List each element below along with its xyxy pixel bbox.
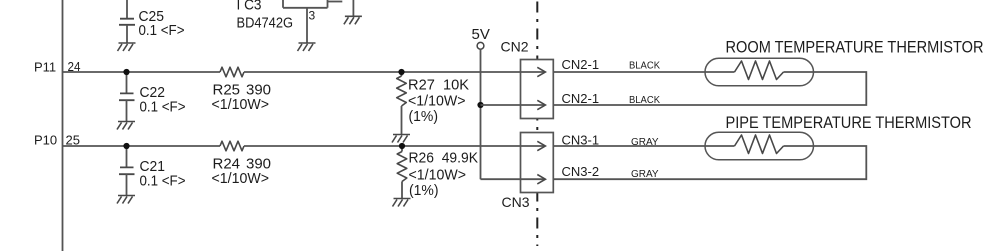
wire: CN2 pin1 arrow xyxy=(537,67,545,76)
svg-text:<1/10W>: <1/10W> xyxy=(212,170,270,187)
capacitor C21 xyxy=(126,146,128,167)
svg-text:CN3: CN3 xyxy=(502,194,530,210)
svg-text:(1%): (1%) xyxy=(409,108,439,125)
ground (R27) xyxy=(392,135,410,143)
svg-text:CN2: CN2 xyxy=(501,39,529,55)
svg-text:R27 10K: R27 10K xyxy=(408,77,469,94)
ground (top right) xyxy=(344,16,362,24)
svg-text:P11: P11 xyxy=(34,60,56,75)
svg-text:PIPE TEMPERATURE THERMISTOR: PIPE TEMPERATURE THERMISTOR xyxy=(726,114,972,132)
wire: pipe thermistor right loop xyxy=(553,146,866,179)
connector CN2 box xyxy=(521,60,554,119)
svg-text:R26 49.9K: R26 49.9K xyxy=(409,150,479,167)
wire: CN3 pin1 to pipe thermistor xyxy=(553,145,734,147)
resistor R26 xyxy=(401,146,403,152)
junction dot (R27) xyxy=(398,69,404,75)
resistor R27 xyxy=(401,72,403,76)
capacitor C22 xyxy=(126,72,128,93)
ground (C25) xyxy=(118,43,136,51)
svg-text:3: 3 xyxy=(309,9,316,23)
junction dot (C22) xyxy=(123,69,129,75)
pin 3 wire xyxy=(306,8,308,43)
ground (R26) xyxy=(393,199,411,207)
svg-text:5V: 5V xyxy=(472,26,490,43)
svg-text:(1%): (1%) xyxy=(409,182,439,199)
wire: P11 row left segment xyxy=(63,71,221,73)
wire: IC3 top right xyxy=(328,1,343,3)
svg-text:CN2-1: CN2-1 xyxy=(562,57,600,72)
svg-text:P10: P10 xyxy=(34,133,57,148)
wire: CN3 pin2 arrow xyxy=(537,175,545,184)
svg-text:<1/10W>: <1/10W> xyxy=(408,93,466,110)
svg-text:CN3-2: CN3-2 xyxy=(562,164,600,179)
junction dot (5V to CN2 pin2) xyxy=(477,102,483,108)
resistor R25 xyxy=(220,67,244,77)
boundary dash-dot line xyxy=(536,2,538,247)
wire: P10 row left segment xyxy=(63,145,221,147)
resistor R24 xyxy=(220,141,244,151)
thermistor RT1 zigzag xyxy=(735,61,784,80)
wire: 5V vertical xyxy=(480,49,482,179)
wire: 5V corner to CN3 pin2 xyxy=(481,178,546,180)
svg-text:<1/10W>: <1/10W> xyxy=(409,167,467,184)
capacitor C25 xyxy=(126,0,128,18)
ground (C21) xyxy=(117,196,135,204)
wire: CN2 pin1 to room thermistor xyxy=(553,71,734,73)
svg-text:0.1 <F>: 0.1 <F> xyxy=(140,173,186,190)
wire: CN2 pin2 row xyxy=(481,104,546,106)
junction dot (C21) xyxy=(123,143,129,149)
wire: grounded stub top xyxy=(352,0,354,16)
wire: left bus vertical xyxy=(62,0,64,251)
wire: P10 row to CN3 pin 1 xyxy=(244,145,545,147)
svg-text:BD4742G: BD4742G xyxy=(237,15,294,32)
thermistor RT2 zigzag xyxy=(735,135,784,154)
svg-text:0.1 <F>: 0.1 <F> xyxy=(139,22,185,39)
wire: CN2 pin2 arrow xyxy=(537,100,545,109)
svg-text:CN2-1: CN2-1 xyxy=(562,91,600,106)
svg-text:BLACK: BLACK xyxy=(629,61,660,72)
wire: P11 row to CN2 pin 1 xyxy=(244,71,545,73)
ground (IC3 pin3) xyxy=(298,43,316,51)
wire: room thermistor right loop xyxy=(553,72,866,105)
thermistor RT2 body xyxy=(705,132,814,160)
op-amp IC3 xyxy=(283,0,328,8)
wire: CN3 pin1 arrow xyxy=(537,141,545,150)
connector CN3 box xyxy=(521,133,554,193)
ground (C22) xyxy=(117,122,135,130)
svg-text:ROOM TEMPERATURE THERMISTOR: ROOM TEMPERATURE THERMISTOR xyxy=(726,39,984,57)
svg-text:0.1 <F>: 0.1 <F> xyxy=(140,99,186,116)
thermistor RT1 body xyxy=(705,58,814,86)
svg-text:<1/10W>: <1/10W> xyxy=(212,96,270,113)
junction dot (R26) xyxy=(399,143,405,149)
svg-text:I C3: I C3 xyxy=(237,0,262,14)
